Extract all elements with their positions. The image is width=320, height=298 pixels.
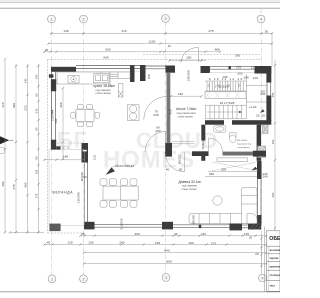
svg-text:390: 390 <box>134 232 139 236</box>
svg-text:90: 90 <box>83 175 87 179</box>
svg-text:418: 418 <box>169 109 173 114</box>
svg-text:220: 220 <box>24 105 28 110</box>
svg-text:184: 184 <box>243 75 248 79</box>
svg-text:ВЕРАНДА: ВЕРАНДА <box>53 190 74 194</box>
svg-text:140: 140 <box>35 74 39 79</box>
svg-text:488: 488 <box>214 48 219 52</box>
svg-text:90/200: 90/200 <box>178 154 182 164</box>
svg-text:Антре 7,06м²: Антре 7,06м² <box>176 107 197 111</box>
svg-text:200: 200 <box>153 113 158 117</box>
svg-text:4: 4 <box>260 18 262 22</box>
svg-text:100: 100 <box>186 56 191 60</box>
svg-text:240: 240 <box>54 118 58 123</box>
svg-text:175: 175 <box>35 193 39 198</box>
svg-text:стени латекс: стени латекс <box>178 115 194 118</box>
svg-text:240: 240 <box>119 241 124 245</box>
svg-text:104: 104 <box>253 76 258 80</box>
svg-text:25: 25 <box>81 232 85 236</box>
svg-text:118: 118 <box>35 169 39 174</box>
svg-text:1: 1 <box>51 277 53 281</box>
svg-text:328: 328 <box>221 167 226 171</box>
svg-text:65: 65 <box>35 127 39 131</box>
svg-text:3: 3 <box>164 17 166 21</box>
svg-text:210: 210 <box>35 108 39 113</box>
svg-text:360: 360 <box>24 182 28 187</box>
svg-text:стени фаянс: стени фаянс <box>237 146 251 149</box>
svg-text:ВЦ 3,96м²: ВЦ 3,96м² <box>237 139 247 142</box>
svg-text:240: 240 <box>260 92 265 96</box>
svg-text:90: 90 <box>179 168 183 172</box>
svg-text:415: 415 <box>121 29 126 33</box>
svg-text:200: 200 <box>147 74 151 79</box>
svg-text:450: 450 <box>209 172 214 176</box>
svg-text:219: 219 <box>50 109 54 114</box>
svg-text:180/200: 180/200 <box>186 70 190 81</box>
svg-text:съгласувал: съгласувал <box>270 274 280 277</box>
svg-text:90: 90 <box>35 156 39 160</box>
svg-text:25: 25 <box>45 48 49 52</box>
svg-text:20: 20 <box>255 252 259 256</box>
svg-text:240: 240 <box>262 175 267 179</box>
svg-text:300: 300 <box>271 192 275 197</box>
svg-text:18 17,5/28: 18 17,5/28 <box>220 101 235 105</box>
svg-text:25: 25 <box>249 235 253 239</box>
svg-text:проектант: проектант <box>270 266 280 269</box>
svg-text:175: 175 <box>12 184 16 189</box>
svg-text:160: 160 <box>271 139 275 144</box>
svg-text:190: 190 <box>88 241 93 245</box>
svg-text:25: 25 <box>256 113 260 117</box>
svg-text:Г-12 5/20: Г-12 5/20 <box>215 85 228 89</box>
svg-text:40: 40 <box>166 168 170 172</box>
svg-text:115: 115 <box>93 155 97 160</box>
svg-text:3: 3 <box>165 276 167 280</box>
svg-text:300: 300 <box>237 71 242 75</box>
svg-text:150: 150 <box>188 241 193 245</box>
svg-text:част: част <box>270 285 276 288</box>
svg-text:200: 200 <box>155 129 160 133</box>
svg-text:40: 40 <box>174 232 178 236</box>
svg-text:128: 128 <box>67 241 72 245</box>
svg-text:12: 12 <box>168 44 172 48</box>
svg-text:365: 365 <box>12 103 16 108</box>
svg-text:4: 4 <box>261 277 263 281</box>
svg-text:148: 148 <box>63 154 68 158</box>
svg-text:550: 550 <box>105 48 110 52</box>
svg-text:стени латекс: стени латекс <box>181 188 197 191</box>
svg-text:475: 475 <box>208 29 213 33</box>
svg-text:275: 275 <box>211 242 216 246</box>
svg-text:1100: 1100 <box>149 40 156 44</box>
svg-text:140: 140 <box>24 78 28 83</box>
svg-text:155: 155 <box>155 241 160 245</box>
svg-text:95/240: 95/240 <box>192 214 196 224</box>
svg-text:480: 480 <box>1 181 5 186</box>
svg-text:50: 50 <box>265 29 269 33</box>
svg-text:210/240: 210/240 <box>120 218 124 229</box>
svg-text:ОБЕКТ: ОБЕКТ <box>269 236 280 242</box>
svg-text:255: 255 <box>271 92 275 97</box>
svg-text:1: 1 <box>50 18 52 22</box>
svg-text:+0,63=396,40: +0,63=396,40 <box>115 164 134 168</box>
svg-text:40: 40 <box>47 241 51 245</box>
svg-text:160: 160 <box>178 92 183 96</box>
svg-text:890: 890 <box>166 259 171 263</box>
svg-text:9 10 11 12 13: 9 10 11 12 13 <box>209 77 243 81</box>
svg-text:645: 645 <box>103 55 108 59</box>
svg-text:под гранитогр.: под гранитогр. <box>237 144 252 146</box>
svg-text:395: 395 <box>235 54 240 58</box>
svg-text:70/200: 70/200 <box>201 140 205 150</box>
svg-text:365: 365 <box>59 102 63 107</box>
svg-text:Дневна 32,1м²: Дневна 32,1м² <box>179 180 202 184</box>
svg-text:стени латекс: стени латекс <box>96 92 112 95</box>
svg-text:възложител: възложител <box>270 249 280 252</box>
svg-text:148: 148 <box>63 29 68 33</box>
svg-text:кухня 18,68м²: кухня 18,68м² <box>94 84 116 88</box>
svg-text:95: 95 <box>35 93 39 97</box>
svg-text:310: 310 <box>201 232 206 236</box>
svg-text:2: 2 <box>82 18 84 22</box>
svg-text:чертеж: чертеж <box>270 257 279 260</box>
svg-text:2: 2 <box>82 277 84 281</box>
svg-text:+1,40: +1,40 <box>249 105 257 109</box>
svg-text:840: 840 <box>164 249 169 253</box>
svg-text:1 2: 1 2 <box>210 120 215 124</box>
svg-text:120/240: 120/240 <box>77 192 81 203</box>
svg-text:10: 10 <box>262 113 266 117</box>
svg-text:415: 415 <box>1 102 5 107</box>
